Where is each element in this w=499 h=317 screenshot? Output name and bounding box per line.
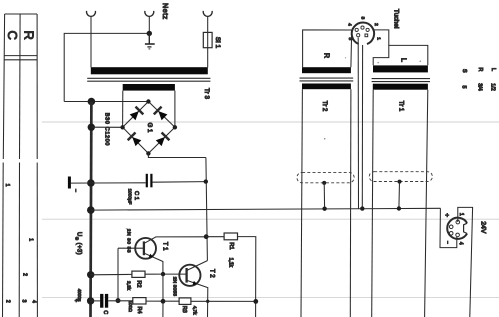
svg-text:4000µ: 4000µ <box>77 289 82 302</box>
svg-text:Si 1: Si 1 <box>214 37 221 49</box>
svg-text:L: L <box>490 68 496 71</box>
node: rail junction below T2 base <box>161 299 166 304</box>
svg-text:1,1k: 1,1k <box>228 258 234 268</box>
wire: T1 base drop <box>117 248 119 300</box>
transformer Tr3 primary winding bar <box>91 67 208 74</box>
mains terminal arc 2 <box>145 11 154 16</box>
node: bridge top corner <box>146 99 150 103</box>
scan speck <box>324 138 326 140</box>
node: bus at C1 row <box>87 179 95 187</box>
resistor R2 <box>132 271 145 277</box>
wire: R1 right down to bottom rail <box>238 237 256 317</box>
24V keyway notch <box>464 223 468 233</box>
svg-text:C 1: C 1 <box>133 191 139 200</box>
wire: Tuchel pin5 down <box>357 38 359 209</box>
Tr2 shield dashed box <box>297 172 354 182</box>
wire: left mains lead down to Tr3 primary <box>90 16 92 67</box>
node: Tr1 shield tap <box>398 180 402 184</box>
svg-text:R4: R4 <box>136 307 142 314</box>
24V pin left lower <box>449 232 453 236</box>
node: middle terminal junction <box>147 31 152 36</box>
wire: Tr3 secondary right lead <box>174 91 176 128</box>
svg-text:+: + <box>443 213 450 217</box>
wire: minus vertical to collector junction <box>206 158 208 261</box>
node: bus at plus rail <box>87 206 95 214</box>
bridge rectifier G1 frame <box>123 102 175 154</box>
Tuchel pin 2 <box>366 28 369 31</box>
wire: T2 emitter down <box>187 280 208 317</box>
scan speck <box>420 60 422 62</box>
wire: T2 base from T1 emitter junction <box>163 273 187 275</box>
svg-text:2: 2 <box>5 300 11 303</box>
svg-text:R: R <box>322 53 329 58</box>
wire: R3 to R1 drop <box>191 300 256 302</box>
wire: right mains lead through fuse to Tr3 primary <box>207 16 209 67</box>
parts table frame <box>3 14 38 317</box>
svg-text:T 2: T 2 <box>208 269 214 278</box>
svg-text:2: 2 <box>373 23 379 26</box>
resistor R4 <box>133 298 146 304</box>
scan speck <box>345 57 346 58</box>
svg-text:R: R <box>21 31 36 40</box>
24V pin top <box>456 220 460 224</box>
svg-text:1/2: 1/2 <box>490 83 496 91</box>
svg-text:2N 3055: 2N 3055 <box>171 277 177 297</box>
wire: junction to R1 <box>206 236 224 238</box>
wire: bus to bridge left corner <box>91 126 122 128</box>
24V pin bottom <box>456 233 460 237</box>
node: bridge bottom corner <box>146 151 150 155</box>
svg-text:T 1: T 1 <box>161 242 167 251</box>
svg-text:C: C <box>5 31 20 40</box>
svg-text:1: 1 <box>27 238 33 241</box>
bus wire (thick vertical) <box>89 102 93 317</box>
node: bridge left corner <box>120 125 124 129</box>
svg-text:1: 1 <box>458 213 464 216</box>
Tr1 upper winding bar <box>373 65 428 72</box>
node: collector junction <box>204 234 209 239</box>
transistor T1 <box>135 238 156 259</box>
svg-text:Tuchel: Tuchel <box>393 9 400 29</box>
wire: bus to R2 <box>91 273 132 275</box>
node: Tr1 shield to rail <box>397 206 401 210</box>
svg-text:Tr 1: Tr 1 <box>397 101 404 112</box>
wire: Tr1 left edge down <box>372 90 374 317</box>
svg-text:UG (+3): UG (+3) <box>75 232 82 255</box>
svg-text:1: 1 <box>375 37 381 40</box>
scan artifact line y=122 <box>42 121 499 123</box>
wire: R2 to T2 base junction <box>145 273 163 275</box>
wire: bridge bottom to minus rail corner <box>148 153 206 157</box>
svg-text:2N 30 53: 2N 30 53 <box>126 229 132 253</box>
svg-text:3: 3 <box>359 17 365 20</box>
svg-text:R3: R3 <box>181 306 187 313</box>
node: bus to bridge left <box>88 124 95 131</box>
wire: left L to bus junction <box>64 101 148 103</box>
wire: Tr3 secondary left lead <box>122 91 124 128</box>
svg-text:C: C <box>102 310 108 314</box>
24V pin left upper <box>449 225 453 229</box>
node: shield to rail <box>322 207 326 211</box>
svg-text:R1: R1 <box>228 242 234 249</box>
chassis bar symbol <box>68 177 71 189</box>
svg-text:5: 5 <box>347 37 353 40</box>
svg-text:4,7k: 4,7k <box>192 306 197 315</box>
svg-text:24V: 24V <box>479 221 486 234</box>
svg-text:100Ω: 100Ω <box>128 301 133 313</box>
T1 emitter arrow <box>149 254 154 258</box>
connector 24V circle <box>447 218 467 239</box>
svg-text:R2: R2 <box>135 281 141 288</box>
connector Tuchel circle <box>352 22 374 44</box>
diode D bottom-left <box>128 133 142 147</box>
wire: Tr1 right edge down <box>425 90 428 317</box>
T2 emitter arrow <box>193 281 198 285</box>
wire: T1 collector to junction <box>144 237 206 244</box>
Tr2 lower winding bar <box>302 84 351 90</box>
node: R1 bottom junction <box>253 299 258 304</box>
Tuchel pin 5 <box>357 34 360 37</box>
wire: 24V top pin up and right edge down <box>458 207 473 317</box>
wire: Tr2 left edge down <box>301 89 302 317</box>
scan artifact line y=219 <box>42 218 499 220</box>
svg-text:1000µF: 1000µF <box>128 189 133 205</box>
wire: top horizontal from left L to middle terminal <box>64 33 149 101</box>
scan artifact line y=297 <box>42 296 499 298</box>
Tuchel pin labels <box>346 17 381 41</box>
wire: Tr1 shield to plus rail <box>398 182 401 209</box>
mains terminal arc 3 <box>203 11 212 16</box>
svg-text:3: 3 <box>20 300 26 303</box>
svg-text:Tr 3: Tr 3 <box>203 88 210 99</box>
wire: plus rail to 24V connector loop <box>440 208 457 247</box>
wire: Tr2 shield to plus rail <box>323 183 325 209</box>
node: T1 emitter / T2 base <box>161 272 165 276</box>
transformer Tr2 box R winding <box>303 30 352 67</box>
node: bridge right corner <box>173 125 177 129</box>
svg-text:S: S <box>461 69 467 73</box>
node: pin wire to rail <box>360 206 364 210</box>
transformer Tr3 core lines <box>87 77 210 79</box>
fuse Si1 <box>203 32 212 47</box>
mains terminal arc 1 <box>87 11 96 16</box>
wire: bus to C1 left plate <box>91 182 146 184</box>
ground symbol <box>145 33 155 49</box>
wire: Tr2 right edge down <box>349 89 352 317</box>
wire: C to R4 <box>108 300 133 302</box>
Tr1 shield dashed box <box>369 172 432 182</box>
wire: Tuchel pin3 down <box>361 45 363 209</box>
Tr2 core lines <box>300 77 354 79</box>
transformer Tr3 secondary winding bar <box>123 84 175 91</box>
resistor R3 <box>179 298 191 305</box>
svg-text:Tr 2: Tr 2 <box>321 101 328 112</box>
svg-text:B30 C1200: B30 C1200 <box>104 113 110 146</box>
wire: Tuchel right to Tr1 <box>374 30 389 46</box>
plus rail wire <box>91 208 441 210</box>
node: base drop to bottom rail <box>116 298 121 303</box>
wire: T2 collector up <box>187 261 208 271</box>
Tuchel pin 3 <box>361 26 364 29</box>
svg-text:2,2k: 2,2k <box>126 281 132 291</box>
node: bus at bottom rail <box>87 297 94 304</box>
Tr2 upper winding bar <box>302 67 351 73</box>
wire: chassis bar to bus <box>71 182 91 184</box>
svg-text:R: R <box>477 68 483 72</box>
wire: T1 emitter down <box>144 253 163 317</box>
svg-text:−: − <box>72 189 78 192</box>
wire: R4 to R3 <box>146 300 179 302</box>
node: bus at R2 row <box>87 271 94 278</box>
transistor T2 <box>179 265 200 286</box>
node: bus top junction <box>88 98 96 106</box>
capacitor C 4000u <box>100 294 108 308</box>
wire: T1 base <box>118 247 144 249</box>
transformer Tr1 box L winding <box>373 45 428 65</box>
node: Tr2 shield tap <box>322 181 326 185</box>
svg-text:3/4: 3/4 <box>477 83 483 91</box>
svg-text:Netz: Netz <box>161 3 168 20</box>
svg-text:4: 4 <box>346 23 352 26</box>
pin assignment text L 1/2 <box>461 68 496 91</box>
svg-text:4: 4 <box>458 242 464 245</box>
Tr1 lower winding bar <box>373 84 428 90</box>
scan speck <box>377 62 379 64</box>
svg-text:5: 5 <box>461 86 467 89</box>
resistor R1 <box>224 233 237 240</box>
svg-text:L: L <box>400 58 407 62</box>
svg-text:−: − <box>444 241 450 244</box>
svg-text:1: 1 <box>4 184 10 187</box>
Tuchel pin 1 square <box>365 34 368 37</box>
svg-text:2: 2 <box>21 273 27 276</box>
capacitor C1 <box>146 174 153 188</box>
wire: C1 right plate to minus vertical <box>152 181 206 184</box>
Tuchel pin 4 <box>355 28 358 31</box>
bottom rail <box>91 300 101 302</box>
svg-text:4: 4 <box>31 300 37 303</box>
diode D top-left <box>130 107 144 121</box>
svg-text:G 1: G 1 <box>146 123 152 133</box>
node: T2 emitter crosses bottom rail <box>206 300 209 303</box>
diode D bottom-right <box>156 133 170 147</box>
node: C1 to minus vertical <box>204 179 208 183</box>
diode D top-right <box>154 107 168 121</box>
scan speck <box>126 228 127 229</box>
wire: middle mains lead down <box>148 16 150 33</box>
Tr1 core lines <box>372 78 430 80</box>
